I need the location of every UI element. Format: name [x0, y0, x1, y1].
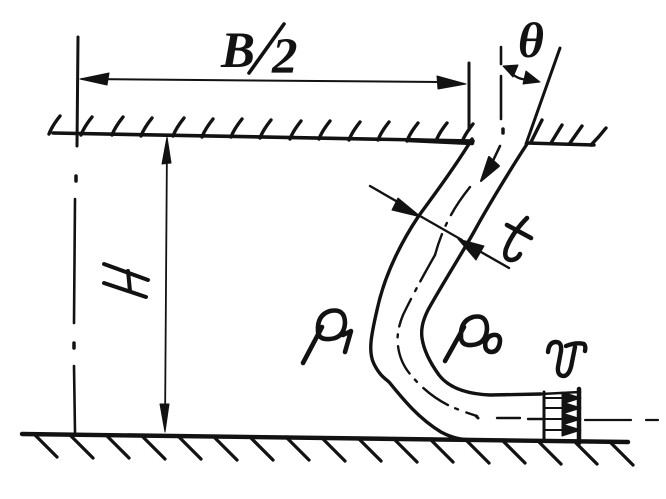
theta arc right arrowhead: [523, 71, 540, 84]
angle theta arc arrow: [506, 68, 531, 80]
flow arrow in nozzle: [490, 146, 500, 167]
label H (rotated): [104, 264, 148, 297]
B/2 left arrowhead: [80, 73, 109, 85]
label B/2: [220, 23, 298, 85]
H up arrowhead: [162, 137, 171, 164]
ground hatching: [34, 434, 633, 465]
exit jet top edge: [541, 392, 580, 394]
t lower arrowhead: [458, 239, 484, 260]
right wall hatching: [531, 120, 606, 145]
dimension B/2 line: [82, 79, 440, 82]
jet centerline (dash-dot): [398, 187, 542, 419]
left vertical centerline (dash-dot): [74, 37, 78, 432]
svg-text:θ: θ: [518, 12, 544, 68]
exit centerline (dash-dot): [476, 416, 658, 420]
top wall line (right segment): [527, 143, 594, 145]
B/2 right arrowhead: [437, 76, 466, 89]
H down arrowhead: [160, 404, 169, 432]
top wall thick end near slot: [408, 140, 472, 143]
jet inner (right) edge: [422, 144, 541, 395]
theta arc left arrowhead: [503, 65, 518, 77]
thickness t dimension upper line: [370, 186, 403, 205]
t upper arrowhead: [392, 198, 421, 217]
velocity profile arrows: [545, 392, 581, 436]
label theta: [518, 12, 544, 68]
exit block right bar: [577, 389, 582, 443]
top wall line (left segment): [53, 133, 473, 141]
B/2 extension tick: [468, 63, 471, 130]
slot centerline above wall (dash-dot): [501, 47, 503, 133]
t dimension line across tube: [420, 216, 462, 240]
jet outer (left) edge: [371, 139, 475, 440]
nozzle right edge above wall: [526, 48, 560, 144]
label v: [548, 342, 585, 376]
top wall hatching: [49, 116, 473, 142]
label p1: [303, 311, 351, 364]
exit block left bar: [543, 392, 546, 441]
label t: [505, 218, 531, 260]
thickness t dimension lower line: [481, 252, 509, 268]
label p0: [445, 317, 500, 362]
H dimension line: [165, 142, 167, 428]
ground line: [22, 434, 628, 442]
